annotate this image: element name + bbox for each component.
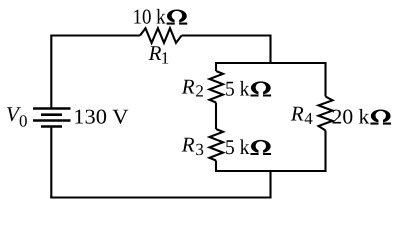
svg-text:10 k: 10 k: [133, 5, 167, 29]
svg-text:R: R: [290, 102, 304, 126]
svg-text:130 V: 130 V: [73, 105, 128, 129]
svg-text:0: 0: [19, 112, 28, 131]
svg-text:5 k: 5 k: [225, 77, 250, 101]
svg-text:5 k: 5 k: [225, 135, 250, 159]
svg-text:2: 2: [195, 82, 204, 101]
svg-text:R: R: [181, 132, 195, 156]
svg-text:1: 1: [161, 48, 170, 67]
svg-text:4: 4: [304, 109, 313, 128]
svg-text:3: 3: [195, 140, 204, 159]
svg-text:R: R: [148, 41, 162, 65]
svg-text:R: R: [181, 74, 195, 98]
svg-text:20 k: 20 k: [332, 105, 370, 129]
